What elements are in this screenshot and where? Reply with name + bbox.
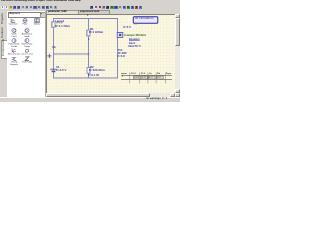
table data underline: [121, 78, 172, 80]
left palette panel: [7, 11, 45, 97]
horizontal scrollbar: [46, 93, 180, 98]
equation Eqn1 title: [129, 38, 140, 41]
resistor R2 (middle top, vertical): [87, 30, 90, 36]
probe Pr1 name green: [124, 34, 146, 37]
node 2 label: [87, 14, 88, 17]
wire: left branch vertical: [53, 18, 55, 78]
palette grid: [0, 0, 180, 1]
dc simulation block: [133, 16, 158, 23]
status bar: [0, 97, 180, 102]
wire label node 0: [52, 46, 56, 49]
resistor R3 (middle bottom, vertical): [87, 67, 90, 73]
vertical scrollbar: [175, 14, 180, 93]
value label R1 name: [55, 20, 64, 23]
probe labels right branch value: [118, 52, 126, 55]
schematic viewport: [46, 14, 176, 94]
equation Eqn1 name: [129, 42, 135, 45]
splitter: [45, 11, 46, 97]
resistor R1 (left top, vertical): [52, 21, 55, 26]
probe Pr1 (right branch meter box): [117, 32, 123, 37]
table header underline: [121, 74, 172, 76]
node junction at middle tie: [88, 53, 90, 55]
dc simulation tag: [134, 23, 138, 26]
table header text: [121, 72, 127, 75]
table row text: [122, 75, 123, 78]
toolbar: [0, 5, 180, 11]
left vertical tab strip: [0, 11, 8, 97]
value label R3 value: [89, 69, 105, 72]
document tab bar: [46, 10, 180, 14]
palette combobox: [8, 12, 46, 19]
resistor R2 rotated name: [85, 29, 88, 35]
probe labels right branch name: [118, 49, 123, 52]
value label R1 line2: [56, 22, 63, 25]
equation Eqn1 line: [128, 45, 141, 48]
value label R2 name: [90, 28, 94, 31]
probe Pr1 voltage label: [123, 26, 131, 29]
value label R3 name: [90, 66, 94, 69]
node A plus marker: [47, 53, 51, 57]
resistor R1 rotated name: [50, 21, 53, 27]
dc simulation text: [135, 17, 154, 20]
voltage source V1 (left bottom battery): [50, 69, 57, 71]
table data cells: [134, 76, 164, 79]
wire: bottom return rail: [53, 77, 118, 79]
value label R3 line3: [88, 74, 99, 77]
wire: top horizontal node 2 rail: [53, 17, 118, 19]
wire: middle horizontal tie: [53, 53, 89, 55]
wire: middle branch vertical: [88, 18, 90, 78]
menu bar: [0, 0, 180, 5]
value label R1 value: [55, 25, 70, 28]
probe labels right branch line3: [117, 55, 125, 58]
node 1 label: [88, 38, 90, 41]
table column separators: [130, 72, 166, 83]
tabular diagram: [119, 70, 175, 87]
value label V1 name: [56, 66, 59, 69]
value label V1 value: [56, 69, 66, 72]
wire: right branch vertical: [117, 18, 119, 78]
value label R2 value: [89, 31, 103, 34]
